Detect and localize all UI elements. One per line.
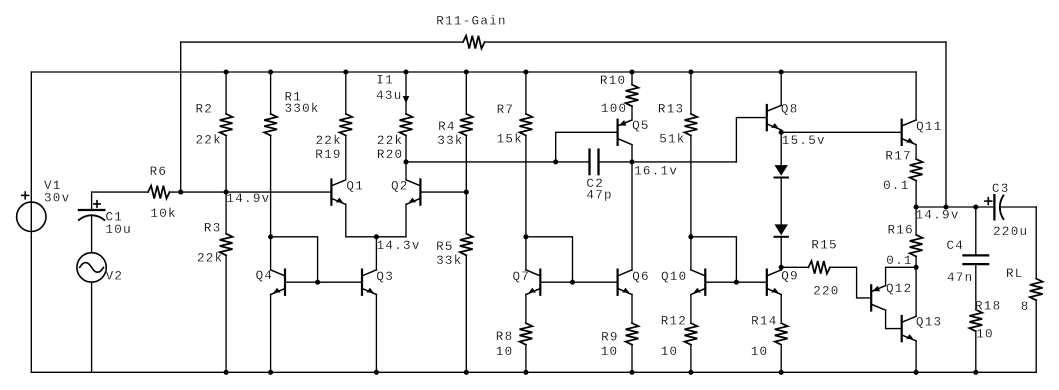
svg-text:R14: R14: [751, 315, 777, 329]
label 22k (R3): [197, 252, 223, 266]
svg-text:Q4: Q4: [256, 269, 274, 283]
label Q9: [781, 269, 799, 283]
wire Q1 emitter down: [345, 204, 347, 236]
label R16: [888, 224, 914, 238]
wire R7 column top: [525, 72, 527, 114]
C3 plus polarity mark: [985, 198, 992, 205]
svg-text:10: 10: [751, 345, 769, 359]
wire Q9 collector vertical: [780, 267, 782, 270]
wire Q10 collector vertical: [690, 237, 692, 270]
transistor Q11: [902, 120, 916, 145]
node Q2 base junction: [464, 190, 469, 195]
label Q10: [661, 270, 687, 284]
label Q1: [346, 180, 364, 194]
transistor Q2: [406, 180, 420, 205]
svg-text:R5: R5: [436, 240, 454, 254]
wire D2 to Q9 collector: [780, 237, 782, 268]
wire Q6 collector vertical: [631, 162, 633, 270]
svg-text:Q3: Q3: [376, 270, 394, 284]
svg-text:22k: 22k: [316, 134, 342, 148]
wire Q3 collector vertical: [375, 237, 377, 270]
node input junction (feedback tap): [178, 190, 183, 195]
label 8 (RL): [1021, 300, 1030, 314]
label R13: [658, 103, 684, 117]
svg-text:0.1: 0.1: [886, 254, 912, 268]
wire Q12 collector to Q13 base: [886, 310, 902, 328]
wire Q4-Q3 base row: [285, 281, 362, 283]
node R12 ground junction: [688, 370, 693, 375]
label 51k: [659, 133, 685, 147]
node R3 ground junction: [224, 370, 229, 375]
node R2 top rail junction: [224, 69, 229, 74]
node output junction (R17): [914, 204, 919, 209]
wire Q8 emitter row to Q11 base: [781, 131, 902, 133]
label 10u: [106, 223, 132, 237]
label R19: [315, 148, 341, 162]
svg-text:R20: R20: [377, 148, 403, 162]
transistor Q8: [767, 105, 781, 130]
svg-text:14.9v: 14.9v: [226, 192, 270, 206]
node Q5 base junction: [553, 159, 558, 164]
svg-text:R11-Gain: R11-Gain: [436, 14, 506, 28]
svg-text:22k: 22k: [377, 134, 403, 148]
node R18 ground junction: [973, 370, 978, 375]
transistor Q6: [618, 270, 632, 295]
wire Q7 collector vertical: [525, 237, 527, 270]
label 22k (R2): [196, 134, 222, 148]
label 10 (R12): [661, 345, 679, 359]
wire R5 top: [465, 192, 467, 234]
current source I1 arrow: [403, 96, 410, 103]
transistor Q13: [902, 316, 916, 341]
svg-text:100: 100: [601, 102, 627, 116]
label 14.9v (output node): [916, 209, 960, 223]
svg-text:R4: R4: [438, 120, 456, 134]
resistor R10: [626, 85, 639, 107]
resistor R19: [339, 114, 352, 136]
svg-text:10u: 10u: [106, 223, 132, 237]
label R4: [438, 120, 456, 134]
resistor R3: [220, 234, 233, 256]
svg-text:I1: I1: [376, 74, 394, 88]
svg-text:Q6: Q6: [632, 270, 650, 284]
label 220: [813, 285, 839, 299]
transistor Q10: [691, 270, 705, 295]
node 14.9v input junction: [224, 190, 229, 195]
label R3: [204, 221, 222, 235]
capacitor C1 (polarized): [79, 210, 104, 220]
label 43u: [376, 89, 402, 103]
wire Q10-Q9 base row: [705, 281, 767, 283]
node R7 top rail junction: [523, 69, 528, 74]
svg-text:51k: 51k: [659, 133, 685, 147]
label Q3: [376, 270, 394, 284]
label 10 (R18): [976, 327, 994, 341]
svg-text:R12: R12: [661, 315, 687, 329]
wire Q5 collector down: [631, 145, 633, 162]
svg-text:Q7: Q7: [513, 270, 531, 284]
label Q8: [781, 103, 799, 117]
wire Q11 collector to rail corner: [915, 72, 917, 120]
svg-text:16.1v: 16.1v: [634, 165, 678, 179]
wire Q2 emitter down: [405, 204, 407, 236]
label Q13: [916, 316, 942, 330]
node Q2 collector VAS junction: [403, 159, 408, 164]
label R12: [661, 315, 687, 329]
wire Q8 emitter to D1: [780, 132, 782, 165]
node feedback output junction: [943, 204, 948, 209]
wire RL to ground corner: [1035, 300, 1037, 372]
wire Q3 emitter to ground: [375, 294, 377, 372]
wire VAS row (Q2 collector to C2): [406, 161, 590, 163]
svg-text:Q1: Q1: [346, 180, 364, 194]
label 10 (R8): [496, 345, 514, 359]
node R5 ground junction: [464, 370, 469, 375]
node R19 top rail junction: [343, 69, 348, 74]
svg-text:10k: 10k: [150, 207, 176, 221]
label 220u: [993, 225, 1028, 239]
node Q7 collector junction: [523, 234, 528, 239]
svg-text:Q8: Q8: [781, 103, 799, 117]
label V1: [44, 179, 62, 193]
wire Q2 collector vertical: [405, 162, 407, 180]
svg-text:330k: 330k: [285, 102, 320, 116]
wire R17 to output row: [915, 181, 917, 207]
wire R18 to ground: [975, 331, 977, 372]
wire R16 bottom: [915, 256, 917, 267]
label R10: [600, 74, 626, 88]
svg-text:220: 220: [813, 285, 839, 299]
wire R5 bottom to ground: [465, 255, 467, 372]
wire Q7 emitter to R8: [525, 294, 527, 323]
svg-text:R16: R16: [888, 224, 914, 238]
label Q12: [886, 282, 912, 296]
wire Q9 emitter to R14: [780, 294, 782, 323]
transistor Q4: [271, 270, 285, 295]
wire output row: [916, 206, 994, 208]
node Q8 emitter junction 15.5v: [779, 130, 784, 135]
resistor R12: [685, 323, 698, 345]
label 10 (R9): [601, 345, 619, 359]
svg-text:220u: 220u: [993, 225, 1028, 239]
wire Q9 collector to R15: [781, 266, 808, 268]
node Q9 collector junction: [779, 265, 784, 270]
wire R14 to ground: [780, 345, 782, 373]
svg-text:14.9v: 14.9v: [916, 209, 960, 223]
wire ground rail: [31, 371, 1036, 373]
resistor R5: [460, 234, 473, 256]
label 22k (R20): [377, 134, 403, 148]
label R5: [436, 240, 454, 254]
label 0.1 (R16): [886, 254, 912, 268]
wire Q4 emitter to ground: [270, 294, 272, 372]
node R9 ground junction: [629, 370, 634, 375]
label C1: [106, 210, 124, 224]
label 22k (R19): [316, 134, 342, 148]
label R8: [496, 330, 514, 344]
wire R4 column top: [465, 72, 467, 114]
label Q4: [256, 269, 274, 283]
wire R12 to ground: [690, 345, 692, 373]
label 33k (R4): [437, 134, 463, 148]
svg-text:R19: R19: [315, 148, 341, 162]
wire input row R6 to Q1 base: [170, 191, 332, 193]
wire C1 top to input row: [92, 192, 148, 210]
svg-text:Q11: Q11: [916, 120, 942, 134]
label 330k: [285, 102, 320, 116]
resistor R7: [520, 114, 533, 136]
resistor R16: [910, 235, 923, 257]
label 16.1v: [634, 165, 678, 179]
svg-text:R2: R2: [196, 103, 214, 117]
label 15.5v: [782, 134, 826, 148]
resistor R14: [775, 323, 788, 345]
label C2: [586, 177, 604, 191]
transistor Q7: [526, 270, 540, 295]
wire R7 bottom to Q7 collector: [525, 136, 527, 237]
wire C3 to RL column: [1000, 206, 1036, 208]
wire feedback left drop: [180, 42, 182, 192]
wire Q7-Q6 base row: [540, 281, 617, 283]
svg-text:V2: V2: [106, 269, 124, 283]
svg-text:47n: 47n: [947, 271, 973, 285]
node R1 top rail junction: [268, 69, 273, 74]
wire feedback right drop: [945, 42, 947, 207]
wire Q2 base to R4/R5 node: [420, 191, 466, 193]
resistor R1: [264, 114, 277, 136]
wire R15 to Q12 base: [830, 267, 871, 298]
svg-text:RL: RL: [1006, 267, 1024, 281]
wire Q11 emitter to R17: [915, 145, 917, 159]
wire R1 column top: [270, 72, 272, 114]
node Q4/Q3 base junction: [315, 280, 320, 285]
wire Q4 collector vertical: [270, 237, 272, 270]
wire C4 top: [975, 207, 977, 255]
label R9: [601, 331, 619, 345]
wire Q7 diode-connect L: [526, 237, 573, 282]
svg-text:10: 10: [496, 345, 514, 359]
label 47p: [586, 189, 612, 203]
wire R4 bottom: [465, 136, 467, 193]
wire R13 column top: [690, 72, 692, 114]
wire R3 bottom to ground: [225, 255, 227, 372]
resistor R9: [626, 323, 639, 345]
wire C1 to V2: [91, 215, 93, 253]
wire R19 bottom to Q1 collector: [345, 136, 347, 180]
node R13 top rail junction: [688, 69, 693, 74]
node tail junction 14.3v: [374, 234, 379, 239]
resistor RL: [1030, 279, 1043, 301]
label Q2: [391, 180, 409, 194]
svg-text:47p: 47p: [586, 189, 612, 203]
label 30v: [44, 191, 70, 205]
wire left rail (V1 branch): [30, 72, 32, 372]
node C4 output junction: [973, 204, 978, 209]
node Q4 collector junction: [268, 234, 273, 239]
resistor R11 (feedback, Gain): [463, 36, 485, 49]
wire Q10 diode-connect L: [691, 237, 737, 282]
wire top supply rail: [31, 71, 916, 73]
resistor R6: [148, 186, 170, 199]
label RL: [1006, 267, 1024, 281]
voltage source V2 (AC): [77, 253, 106, 282]
svg-text:R7: R7: [497, 103, 515, 117]
C1 plus polarity mark: [94, 201, 100, 207]
svg-text:33k: 33k: [436, 254, 462, 268]
diode D2: [775, 224, 788, 236]
node Q7/Q6 base junction: [570, 280, 575, 285]
node Q5 collector junction 16.1v: [629, 159, 634, 164]
node R14 ground junction: [779, 370, 784, 375]
wire R20 bottom to VAS node: [405, 136, 407, 162]
node Q10/Q9 base junction: [734, 280, 739, 285]
wire tail row: [346, 236, 406, 238]
resistor R2: [220, 114, 233, 136]
wire RL top: [1035, 207, 1037, 279]
wire Q6 emitter to R9: [631, 294, 633, 323]
capacitor C4: [964, 255, 989, 264]
svg-text:R18: R18: [975, 300, 1001, 314]
svg-text:30v: 30v: [44, 191, 70, 205]
wire R2 column top: [225, 72, 227, 114]
voltage source V1: [17, 202, 46, 231]
svg-text:R15: R15: [811, 239, 837, 253]
wire R8 to ground: [525, 345, 527, 373]
svg-text:10: 10: [976, 327, 994, 341]
svg-text:R6: R6: [150, 165, 168, 179]
label Q11: [916, 120, 942, 134]
svg-text:33k: 33k: [437, 134, 463, 148]
label C4: [947, 239, 965, 253]
wire Q13 emitter to ground: [915, 341, 917, 372]
node R4 top rail junction: [464, 69, 469, 74]
capacitor C3 (polarized): [994, 195, 1003, 219]
label 0.1 (R17): [883, 179, 909, 193]
label 47n: [947, 271, 973, 285]
svg-text:R3: R3: [204, 221, 222, 235]
node R8 ground junction: [523, 370, 528, 375]
wire R9 to ground: [631, 345, 633, 373]
svg-text:14.3v: 14.3v: [377, 239, 421, 253]
node R16 bottom junction: [914, 265, 919, 270]
svg-text:Q2: Q2: [391, 180, 409, 194]
svg-text:R10: R10: [600, 74, 626, 88]
label 33k (R5): [436, 254, 462, 268]
svg-text:15.5v: 15.5v: [782, 134, 826, 148]
wire I1 column top: [405, 72, 407, 114]
node R10 top rail junction: [629, 69, 634, 74]
wire R16 top: [915, 207, 917, 235]
svg-text:R13: R13: [658, 103, 684, 117]
label R2: [196, 103, 214, 117]
label I1: [376, 74, 394, 88]
label 14.3v: [377, 239, 421, 253]
svg-text:Q12: Q12: [886, 282, 912, 296]
svg-text:22k: 22k: [197, 252, 223, 266]
node Q4 emitter ground junction: [268, 370, 273, 375]
resistor R4: [460, 114, 473, 136]
svg-text:0.1: 0.1: [883, 179, 909, 193]
wire Q12 emitter up and right: [886, 267, 917, 285]
svg-text:15k: 15k: [497, 133, 523, 147]
wire feedback top (output to input via R11): [181, 41, 946, 43]
svg-text:C3: C3: [992, 182, 1010, 196]
node Q3 emitter ground junction: [374, 370, 379, 375]
transistor Q12: [871, 285, 885, 310]
V1 plus polarity mark: [22, 192, 29, 199]
label Q5: [632, 119, 650, 133]
svg-text:R8: R8: [496, 330, 514, 344]
svg-text:22k: 22k: [196, 134, 222, 148]
diode D1: [775, 165, 788, 177]
transistor Q3: [362, 270, 376, 295]
wire Q8 base drop: [736, 118, 766, 162]
resistor R13: [685, 114, 698, 136]
svg-text:Q9: Q9: [781, 269, 799, 283]
resistor R20: [400, 114, 413, 136]
wire C4 to R18: [975, 264, 977, 310]
label 10k: [150, 207, 176, 221]
resistor R18: [969, 310, 982, 332]
label 14.9v (input node): [226, 192, 270, 206]
wire C2 to Q5 collector: [599, 161, 633, 163]
svg-text:Q5: Q5: [632, 119, 650, 133]
wire Q10 emitter to R12: [690, 294, 692, 323]
svg-text:10: 10: [601, 345, 619, 359]
label 10 (R14): [751, 345, 769, 359]
wire R3 column top: [225, 192, 227, 234]
wire Q8 collector to rail: [780, 72, 782, 105]
resistor R15: [808, 261, 830, 274]
svg-text:8: 8: [1021, 300, 1030, 314]
label R20: [377, 148, 403, 162]
svg-text:Q10: Q10: [661, 270, 687, 284]
label R7: [497, 103, 515, 117]
svg-text:C4: C4: [947, 239, 965, 253]
wire R1 bottom to Q4 collector: [270, 136, 272, 237]
wire Q5 emitter up to R10: [631, 106, 633, 120]
wire R2 bottom to input row: [225, 136, 227, 193]
wire Q13 collector up: [915, 267, 917, 316]
node Q13 emitter ground junction: [914, 370, 919, 375]
transistor Q9: [767, 270, 781, 295]
wire V2 to ground rail: [91, 282, 93, 372]
label R6: [150, 165, 168, 179]
label V2: [106, 269, 124, 283]
node Q10 collector junction: [688, 234, 693, 239]
svg-text:R17: R17: [885, 149, 911, 163]
transistor Q1: [331, 180, 345, 205]
label Q7: [513, 270, 531, 284]
wire R10 top to rail: [631, 72, 633, 85]
wire D1 to D2: [780, 178, 782, 225]
svg-text:Q13: Q13: [916, 316, 942, 330]
label C3: [992, 182, 1010, 196]
wire VAS to Q8 base drop: [632, 161, 736, 163]
resistor R8: [520, 323, 533, 345]
node I1 top rail junction: [403, 69, 408, 74]
label R11-Gain: [436, 14, 506, 28]
svg-text:R9: R9: [601, 331, 619, 345]
label R14: [751, 315, 777, 329]
resistor R17: [910, 159, 923, 181]
label R18: [975, 300, 1001, 314]
transistor Q5: [618, 120, 632, 145]
label 100: [601, 102, 627, 116]
svg-text:43u: 43u: [376, 89, 402, 103]
label 15k: [497, 133, 523, 147]
wire R19 column top: [345, 72, 347, 114]
